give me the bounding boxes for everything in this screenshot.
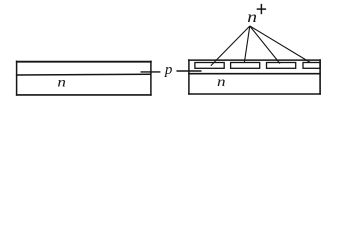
leader line from n+ to contact 3	[250, 26, 280, 64]
leader line from n+ to contact 1	[211, 26, 250, 66]
wire dash from wafer 1 p-layer to label p	[141, 71, 161, 73]
n+ contact region 4	[303, 63, 320, 69]
svg-text:n: n	[57, 75, 66, 90]
wafer 2 right edge	[319, 59, 321, 94]
svg-text:n: n	[217, 74, 226, 89]
wafer 1 bottom edge	[16, 94, 152, 96]
n+ contact region 3	[267, 63, 296, 69]
wafer 2 p-n junction line	[188, 73, 321, 75]
svg-text:n: n	[247, 8, 257, 26]
n+ contact region 1	[195, 63, 224, 69]
wafer 1 top edge	[16, 61, 152, 63]
label n (wafer 1)	[57, 75, 66, 90]
leader line from n+ to contact 4	[250, 26, 311, 63]
leader line from n+ to contact 2	[244, 26, 250, 63]
wafer 2 top edge	[188, 59, 321, 61]
n+ contact region 2	[231, 63, 260, 69]
wire dash from label p to wafer 2 p-layer	[177, 70, 202, 72]
wafer 2 bottom edge	[188, 93, 321, 95]
wafer 1 right edge	[150, 61, 152, 96]
label n (wafer 2)	[217, 74, 226, 89]
wafer 1 left edge	[16, 61, 18, 96]
plus sign of n+ label	[257, 8, 266, 10]
wafer 2 left edge	[188, 59, 190, 94]
svg-text:p: p	[164, 62, 173, 78]
label n of n+	[247, 8, 257, 26]
wafer 1 p-n junction line	[16, 73, 152, 76]
